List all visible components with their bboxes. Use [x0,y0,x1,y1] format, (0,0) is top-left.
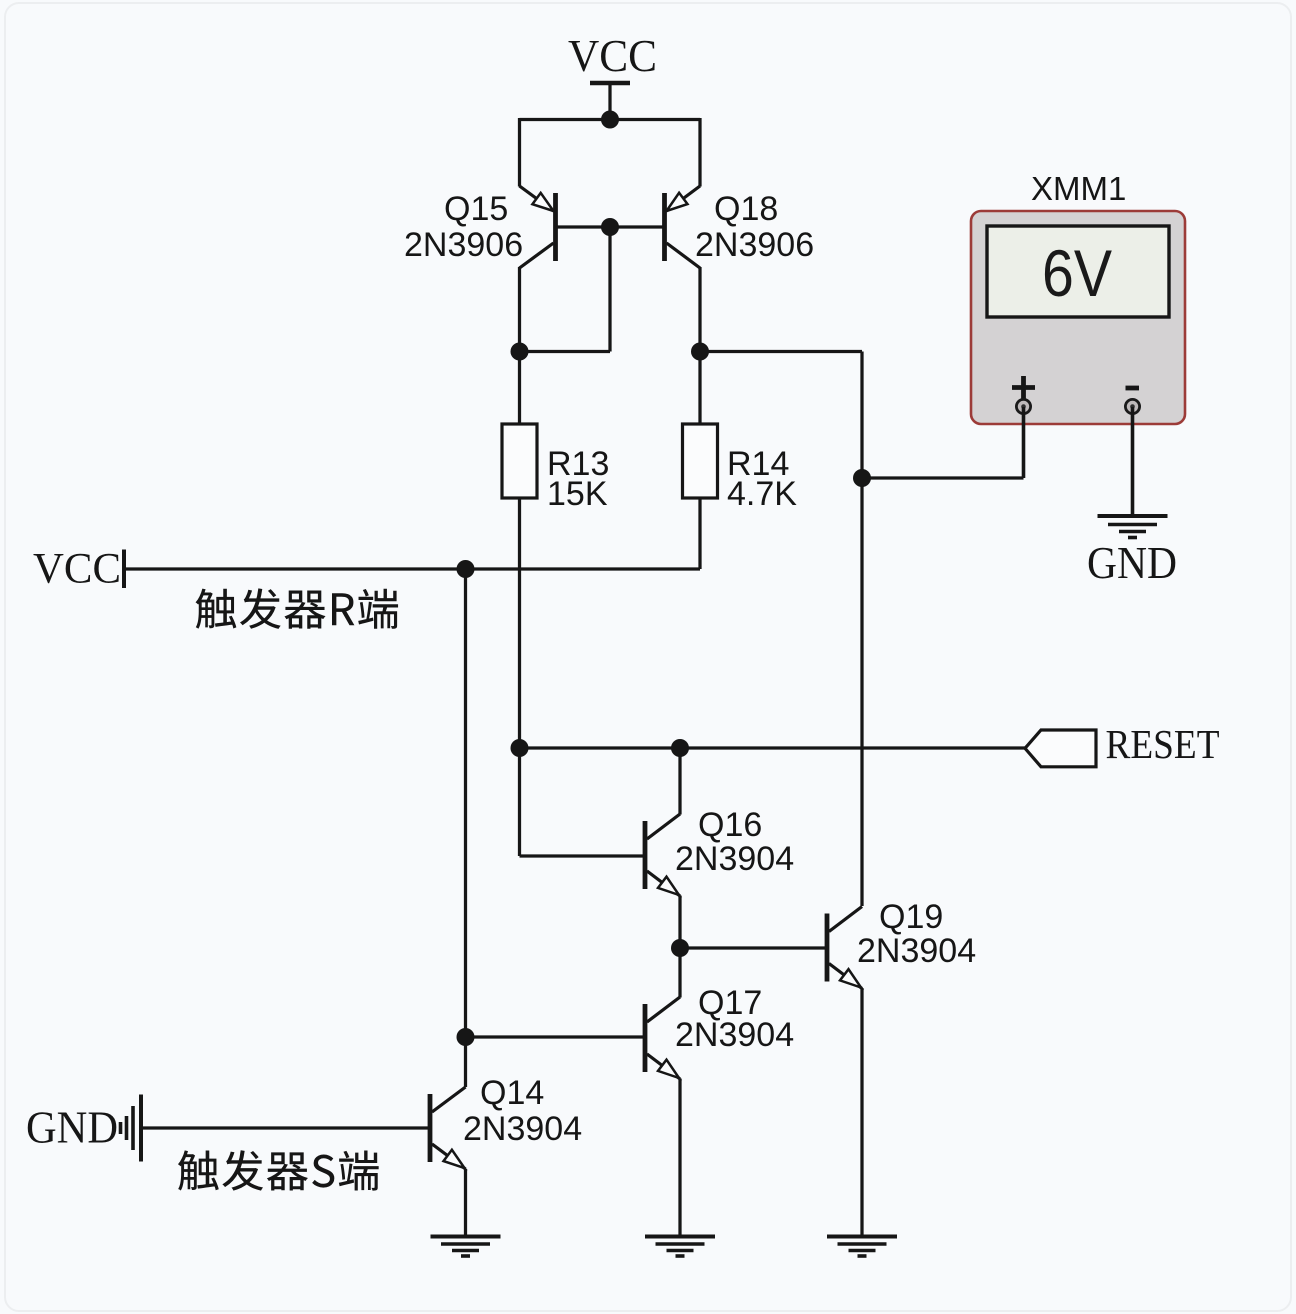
junction VCC row [457,560,475,578]
svg-text:2N3904: 2N3904 [463,1110,582,1148]
wire Q15 base [558,225,611,228]
wire meter + lead [1022,407,1026,478]
wire Q15 emitter drop [518,118,521,187]
svg-text:2N3904: 2N3904 [675,840,794,878]
wire R14 top lead [698,352,701,425]
power symbol VCC [590,83,630,121]
junction node Q15 collector [511,343,529,361]
svg-text:Q15: Q15 [444,190,508,228]
junction Q17 base node [457,1028,475,1046]
wire Q18 base [610,225,663,228]
svg-text:XMM1: XMM1 [1031,170,1126,207]
svg-text:Q18: Q18 [714,190,778,228]
wire Q17 collector [678,948,681,998]
transistor Q17 2N3904 [645,997,680,1079]
junction Q16 collector node [671,739,689,757]
junction base node [601,218,619,236]
transistor Q16 2N3904 [645,814,680,896]
wire to meter + [862,476,1024,479]
svg-text:2N3906: 2N3906 [695,226,814,264]
ground (Q17 emitter) [645,1237,715,1257]
wire R13 bottom lead [518,498,521,748]
transistor Q14 2N3904 [430,1087,466,1169]
svg-text:VCC: VCC [568,30,657,81]
wire Q14 base [143,1126,428,1129]
terminal - marking [1126,386,1140,391]
terminal + marking [1012,376,1035,399]
wire meter - lead [1131,407,1135,514]
svg-text:6V: 6V [1042,236,1112,310]
wire R14 bottom lead [698,498,701,569]
junction meter tap [853,469,871,487]
wire to meter branch [700,350,862,353]
wire Q19 base [680,946,825,949]
wire left column [464,569,467,1087]
multimeter display [987,226,1169,317]
transistor Q18 2N3906 [665,186,701,268]
resistor R13 [502,424,537,498]
wire Q18 emitter drop [698,118,701,187]
wire VCC input row [124,567,700,570]
port symbol GND (left) [121,1095,142,1162]
wire Q14 emitter [464,1169,467,1235]
terminal - pin [1125,399,1139,413]
wire Q19 collector line [860,478,863,906]
transistor Q19 2N3904 [827,907,862,989]
wire meter branch drop [860,352,863,479]
svg-text:2N3906: 2N3906 [404,226,523,264]
wire RESET row [520,746,1026,749]
ground (Q14 emitter) [431,1237,501,1257]
wire base node stem [608,227,611,352]
port tick VCC [122,550,126,589]
svg-text:RESET: RESET [1106,721,1220,767]
junction R13-Q16 base node [511,739,529,757]
port flag RESET [1025,730,1096,767]
multimeter XMM1 body [971,211,1185,424]
svg-text:Q16: Q16 [698,806,762,844]
wire R13 top lead [518,352,521,425]
wire Q16 base [520,854,644,857]
svg-text:Q19: Q19 [879,898,943,936]
ground (Q19 emitter) [827,1237,897,1257]
wire Q19 emitter [860,988,863,1235]
wire base-collector tie [520,350,611,353]
junction VCC rail [601,111,619,129]
svg-text:GND: GND [26,1102,118,1153]
svg-text:15K: 15K [547,475,608,513]
wire Q17 base [466,1035,644,1038]
svg-text:VCC: VCC [33,546,121,593]
ground (meter -) [1098,516,1168,538]
wire Q18 collector drop [698,267,701,352]
wire Q16 collector [678,748,681,815]
transistor Q15 2N3906 [520,186,556,268]
terminal + pin [1016,399,1030,413]
svg-text:GND: GND [1087,537,1177,588]
svg-text:2N3904: 2N3904 [857,932,976,970]
junction node Q18 collector [691,343,709,361]
svg-text:2N3904: 2N3904 [675,1016,794,1054]
annotation 触发器R端 [196,588,399,628]
annotation 触发器S端 [178,1150,379,1190]
junction Q16-Q17-Q19 node [671,939,689,957]
wire Q16 emitter [678,896,681,949]
wire Q17 emitter [678,1079,681,1235]
resistor R14 [683,424,718,498]
svg-text:4.7K: 4.7K [727,475,797,513]
wire Q16 base drop [518,748,521,856]
svg-text:Q14: Q14 [480,1074,544,1112]
wire Q15 collector drop [518,267,521,352]
wire top rail [520,118,701,121]
